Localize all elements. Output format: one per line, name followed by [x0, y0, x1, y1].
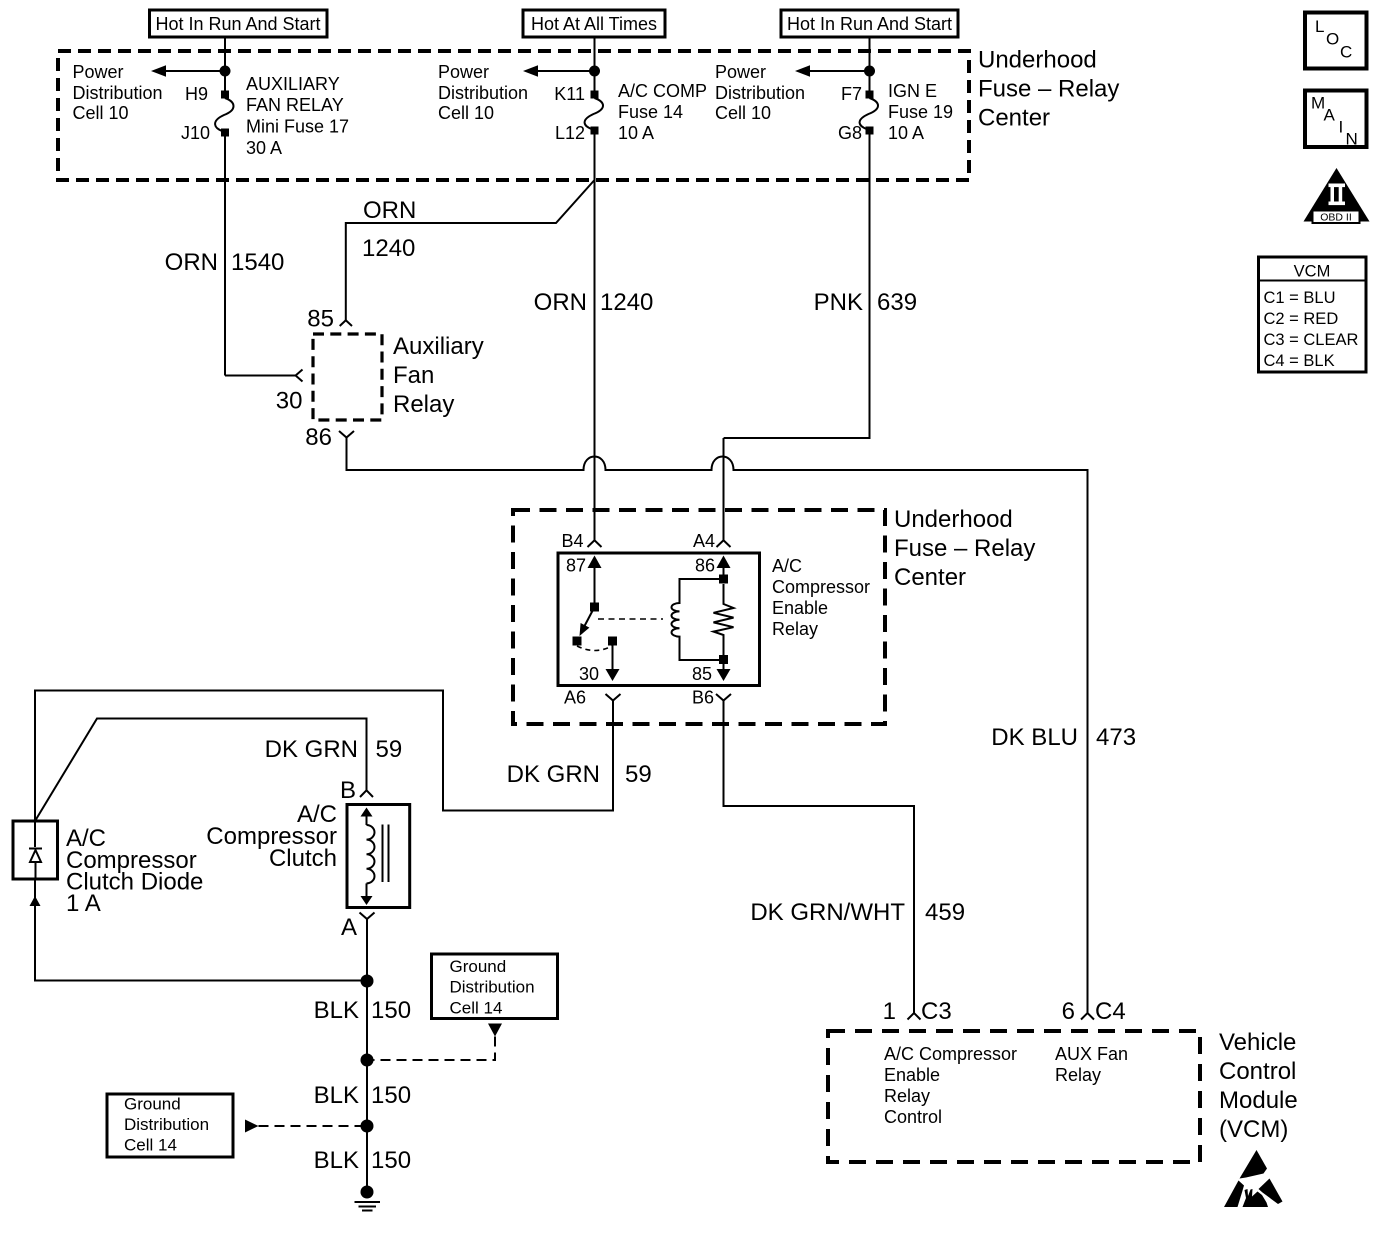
- svg-text:150: 150: [371, 1147, 411, 1174]
- svg-text:Control: Control: [1219, 1058, 1296, 1085]
- svg-text:BLK: BLK: [314, 1082, 359, 1109]
- svg-text:Relay: Relay: [772, 619, 818, 639]
- svg-text:Fuse 14: Fuse 14: [618, 102, 683, 122]
- svg-text:Hot At All Times: Hot At All Times: [531, 14, 657, 34]
- svg-text:639: 639: [877, 289, 917, 316]
- svg-text:Distribution: Distribution: [124, 1115, 209, 1134]
- svg-text:Cell 10: Cell 10: [715, 103, 771, 123]
- svg-text:1240: 1240: [600, 289, 653, 316]
- svg-text:10 A: 10 A: [888, 123, 924, 143]
- svg-text:85: 85: [307, 306, 334, 333]
- svg-text:ORN: ORN: [165, 249, 218, 276]
- svg-text:Mini Fuse 17: Mini Fuse 17: [246, 117, 349, 137]
- svg-text:Underhood: Underhood: [978, 47, 1097, 74]
- svg-text:J10: J10: [181, 123, 210, 143]
- svg-text:C3 = CLEAR: C3 = CLEAR: [1264, 331, 1359, 349]
- svg-text:A/C COMP: A/C COMP: [618, 81, 707, 101]
- svg-text:A/C: A/C: [772, 556, 802, 576]
- svg-text:C4 = BLK: C4 = BLK: [1264, 352, 1335, 370]
- svg-text:A: A: [341, 914, 357, 941]
- svg-text:L12: L12: [555, 123, 585, 143]
- svg-text:AUX Fan: AUX Fan: [1055, 1044, 1128, 1064]
- svg-text:59: 59: [625, 761, 652, 788]
- svg-text:B4: B4: [561, 531, 583, 551]
- svg-text:Fan: Fan: [393, 362, 434, 389]
- svg-text:A6: A6: [564, 688, 586, 708]
- svg-text:150: 150: [371, 1082, 411, 1109]
- svg-text:IGN E: IGN E: [888, 81, 937, 101]
- svg-text:Hot In Run And Start: Hot In Run And Start: [155, 14, 320, 34]
- svg-text:Cell 14: Cell 14: [450, 999, 503, 1018]
- svg-text:C1 = BLU: C1 = BLU: [1264, 289, 1336, 307]
- svg-text:G8: G8: [838, 123, 862, 143]
- svg-text:B: B: [340, 777, 356, 804]
- svg-text:Power: Power: [438, 62, 489, 82]
- svg-text:B6: B6: [692, 688, 714, 708]
- svg-text:DK BLU: DK BLU: [991, 724, 1078, 751]
- svg-text:K11: K11: [554, 84, 585, 104]
- svg-text:Center: Center: [978, 105, 1050, 132]
- svg-text:459: 459: [925, 899, 965, 926]
- svg-text:473: 473: [1096, 724, 1136, 751]
- svg-text:1: 1: [883, 998, 896, 1025]
- svg-text:6: 6: [1062, 998, 1075, 1025]
- svg-text:10 A: 10 A: [618, 123, 654, 143]
- svg-text:C: C: [1340, 43, 1352, 62]
- svg-text:Relay: Relay: [393, 391, 454, 418]
- svg-text:Relay: Relay: [1055, 1065, 1101, 1085]
- svg-text:AUXILIARY: AUXILIARY: [246, 74, 340, 94]
- svg-text:86: 86: [695, 556, 715, 576]
- svg-text:Cell 10: Cell 10: [73, 103, 129, 123]
- svg-text:Distribution: Distribution: [715, 83, 805, 103]
- svg-text:(VCM): (VCM): [1219, 1116, 1288, 1143]
- svg-text:Enable: Enable: [884, 1065, 940, 1085]
- svg-text:BLK: BLK: [314, 1147, 359, 1174]
- svg-text:30 A: 30 A: [246, 138, 282, 158]
- svg-text:OBD II: OBD II: [1320, 212, 1352, 224]
- svg-text:Distribution: Distribution: [438, 83, 528, 103]
- svg-text:Center: Center: [894, 564, 966, 591]
- svg-text:Distribution: Distribution: [450, 978, 535, 997]
- svg-text:BLK: BLK: [314, 997, 359, 1024]
- svg-text:1240: 1240: [362, 235, 415, 262]
- svg-text:Fuse 19: Fuse 19: [888, 102, 953, 122]
- svg-text:A: A: [1324, 106, 1336, 125]
- svg-text:Distribution: Distribution: [73, 83, 163, 103]
- svg-text:A/C Compressor: A/C Compressor: [884, 1044, 1017, 1064]
- svg-text:H9: H9: [185, 84, 208, 104]
- svg-text:1540: 1540: [231, 249, 284, 276]
- svg-text:150: 150: [371, 997, 411, 1024]
- svg-text:Fuse – Relay: Fuse – Relay: [894, 535, 1035, 562]
- svg-text:DK GRN: DK GRN: [265, 736, 358, 763]
- svg-text:Power: Power: [73, 62, 124, 82]
- svg-text:I: I: [1339, 118, 1344, 137]
- svg-text:ORN: ORN: [534, 289, 587, 316]
- svg-text:Auxiliary: Auxiliary: [393, 333, 484, 360]
- svg-text:O: O: [1326, 30, 1339, 49]
- svg-text:F7: F7: [841, 84, 862, 104]
- svg-text:Enable: Enable: [772, 598, 828, 618]
- svg-text:Module: Module: [1219, 1087, 1298, 1114]
- svg-text:Fuse – Relay: Fuse – Relay: [978, 76, 1119, 103]
- svg-text:30: 30: [276, 388, 303, 415]
- svg-text:Ground: Ground: [450, 957, 507, 976]
- svg-text:PNK: PNK: [814, 289, 863, 316]
- svg-text:Underhood: Underhood: [894, 506, 1013, 533]
- svg-text:A4: A4: [693, 531, 715, 551]
- svg-text:Cell 10: Cell 10: [438, 103, 494, 123]
- svg-text:VCM: VCM: [1294, 263, 1331, 281]
- svg-text:Vehicle: Vehicle: [1219, 1029, 1296, 1056]
- svg-text:Relay: Relay: [884, 1086, 930, 1106]
- svg-text:Power: Power: [715, 62, 766, 82]
- svg-text:L: L: [1315, 17, 1324, 36]
- svg-text:N: N: [1346, 130, 1358, 149]
- svg-text:Hot In Run And Start: Hot In Run And Start: [787, 14, 952, 34]
- svg-text:86: 86: [305, 424, 332, 451]
- svg-text:30: 30: [579, 664, 599, 684]
- svg-text:1 A: 1 A: [66, 890, 101, 917]
- svg-text:Clutch: Clutch: [269, 845, 337, 872]
- svg-text:Ground: Ground: [124, 1095, 181, 1114]
- svg-text:Compressor: Compressor: [772, 577, 870, 597]
- svg-text:DK GRN/WHT: DK GRN/WHT: [750, 899, 905, 926]
- svg-text:FAN RELAY: FAN RELAY: [246, 95, 344, 115]
- svg-text:85: 85: [692, 664, 712, 684]
- svg-text:C2 = RED: C2 = RED: [1264, 310, 1339, 328]
- svg-text:C4: C4: [1095, 998, 1126, 1025]
- svg-text:Control: Control: [884, 1107, 942, 1127]
- svg-text:59: 59: [376, 736, 403, 763]
- svg-text:87: 87: [566, 556, 586, 576]
- svg-text:C3: C3: [921, 998, 952, 1025]
- svg-text:Cell 14: Cell 14: [124, 1136, 177, 1155]
- svg-text:DK GRN: DK GRN: [507, 761, 600, 788]
- svg-text:ORN: ORN: [363, 197, 416, 224]
